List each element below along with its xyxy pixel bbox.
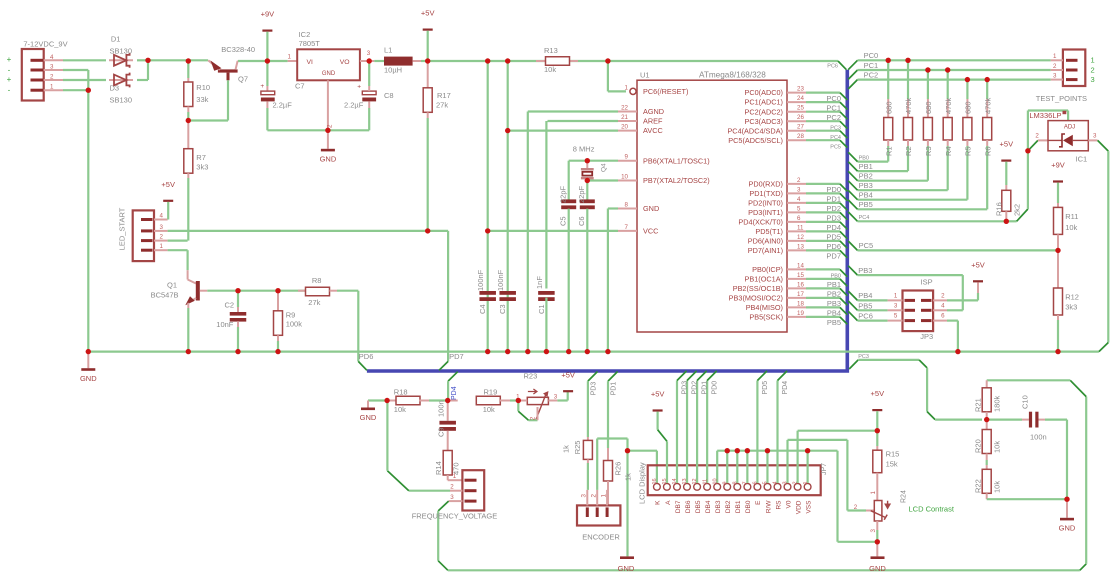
svg-text:PD0(RXD): PD0(RXD)	[749, 180, 783, 189]
svg-text:2k2: 2k2	[1013, 204, 1022, 216]
svg-text:11: 11	[702, 479, 708, 485]
svg-text:470k: 470k	[983, 97, 992, 114]
svg-text:PD3: PD3	[590, 382, 597, 396]
svg-text:PB3: PB3	[859, 181, 873, 190]
svg-text:PD4: PD4	[826, 223, 841, 232]
svg-text:100n: 100n	[1030, 433, 1047, 442]
svg-text:PB3(MOSI/OC2): PB3(MOSI/OC2)	[729, 294, 783, 303]
svg-text:VSS: VSS	[805, 500, 812, 514]
svg-text:IC2: IC2	[299, 30, 311, 39]
svg-text:680: 680	[924, 101, 933, 114]
svg-text:R26: R26	[614, 462, 623, 476]
svg-text:100nF: 100nF	[496, 269, 505, 291]
svg-text:VCC: VCC	[643, 227, 658, 236]
svg-text:PB4(MISO): PB4(MISO)	[746, 303, 783, 312]
svg-text:SB130: SB130	[110, 96, 133, 105]
svg-text:AREF: AREF	[643, 117, 663, 126]
svg-text:PC3: PC3	[858, 354, 869, 360]
svg-text:R14: R14	[434, 461, 443, 475]
svg-text:R8: R8	[312, 276, 322, 285]
svg-text:R12: R12	[1065, 293, 1079, 302]
svg-text:7: 7	[625, 224, 629, 231]
svg-text:BC547B: BC547B	[151, 291, 179, 300]
svg-text:PB2(SS/OC1B): PB2(SS/OC1B)	[733, 284, 783, 293]
svg-text:6: 6	[753, 481, 759, 484]
svg-text:680: 680	[964, 101, 973, 114]
svg-text:16: 16	[797, 281, 804, 288]
svg-text:470k: 470k	[904, 97, 913, 114]
svg-text:3: 3	[50, 64, 54, 71]
svg-text:Q1: Q1	[167, 280, 177, 289]
svg-text:R19: R19	[484, 388, 498, 397]
svg-text:27: 27	[797, 124, 804, 131]
svg-text:100k: 100k	[286, 320, 303, 329]
svg-text:10: 10	[712, 478, 718, 484]
svg-text:GND: GND	[320, 154, 337, 163]
svg-text:DB5: DB5	[695, 500, 702, 513]
svg-text:DB1: DB1	[735, 500, 742, 513]
svg-text:GND: GND	[1059, 523, 1076, 532]
svg-text:1: 1	[1091, 56, 1095, 65]
svg-text:R7: R7	[196, 153, 206, 162]
svg-text:PC5: PC5	[830, 144, 841, 150]
svg-text:PD1: PD1	[702, 381, 709, 395]
svg-text:R1: R1	[884, 146, 893, 156]
svg-text:PD0: PD0	[712, 381, 719, 395]
svg-text:24: 24	[797, 95, 804, 102]
svg-text:A: A	[665, 500, 672, 505]
svg-text:5: 5	[763, 481, 769, 484]
svg-text:8: 8	[625, 202, 629, 209]
svg-text:470k: 470k	[944, 97, 953, 114]
svg-text:PC3(ADC3): PC3(ADC3)	[744, 117, 783, 126]
svg-text:2: 2	[797, 177, 801, 184]
svg-text:15: 15	[662, 478, 668, 484]
svg-text:100nF: 100nF	[476, 269, 485, 291]
svg-text:-: -	[8, 66, 11, 75]
svg-text:C4: C4	[478, 304, 487, 314]
svg-text:GND: GND	[80, 374, 97, 383]
svg-text:R17: R17	[437, 91, 451, 100]
svg-text:R25: R25	[573, 441, 582, 455]
svg-text:PC2: PC2	[864, 70, 879, 79]
svg-text:R16: R16	[995, 202, 1004, 216]
svg-text:8: 8	[732, 481, 738, 484]
svg-text:7-12VDC_9V: 7-12VDC_9V	[23, 40, 67, 49]
svg-text:C6: C6	[577, 216, 586, 226]
svg-text:2: 2	[50, 74, 54, 81]
svg-text:1: 1	[50, 84, 54, 91]
svg-text:+9V: +9V	[1051, 161, 1065, 170]
svg-text:PC2: PC2	[826, 113, 841, 122]
svg-text:R5: R5	[964, 146, 973, 156]
svg-text:16: 16	[652, 478, 658, 484]
svg-text:PB2: PB2	[827, 290, 841, 299]
svg-text:PB5: PB5	[827, 318, 841, 327]
svg-text:VDD: VDD	[795, 500, 802, 514]
svg-text:PD5: PD5	[762, 381, 769, 395]
svg-text:+: +	[357, 84, 361, 91]
svg-text:PB3: PB3	[827, 299, 841, 308]
svg-text:V0: V0	[785, 500, 792, 508]
svg-text:1: 1	[600, 494, 607, 498]
svg-text:FREQUENCY_VOLTAGE: FREQUENCY_VOLTAGE	[412, 512, 498, 521]
svg-text:AGND: AGND	[643, 107, 664, 116]
svg-text:23: 23	[797, 86, 804, 93]
svg-text:PB1(OC1A): PB1(OC1A)	[744, 275, 783, 284]
svg-text:9: 9	[625, 154, 629, 161]
svg-text:1: 1	[894, 292, 898, 299]
svg-text:+5V: +5V	[871, 389, 885, 398]
svg-text:PC3: PC3	[830, 125, 841, 131]
svg-text:14: 14	[797, 262, 804, 269]
svg-text:C1: C1	[537, 304, 546, 314]
svg-text:17: 17	[797, 291, 804, 298]
svg-text:15: 15	[797, 272, 804, 279]
svg-text:PB5: PB5	[858, 301, 872, 310]
svg-text:PC0: PC0	[826, 94, 841, 103]
svg-text:R18: R18	[394, 388, 408, 397]
svg-text:+5V: +5V	[1000, 140, 1014, 149]
svg-text:PB4: PB4	[859, 191, 873, 200]
svg-text:27k: 27k	[308, 298, 320, 307]
svg-text:R/W: R/W	[765, 500, 772, 514]
svg-text:ENCODER: ENCODER	[582, 533, 620, 542]
svg-text:26: 26	[797, 114, 804, 121]
svg-text:DB6: DB6	[685, 500, 692, 513]
svg-text:PC1: PC1	[864, 61, 879, 70]
svg-text:TEST_POINTS: TEST_POINTS	[1036, 94, 1087, 103]
svg-text:AVCC: AVCC	[643, 126, 663, 135]
svg-text:1k: 1k	[562, 445, 571, 453]
svg-text:PD4(XCK/T0): PD4(XCK/T0)	[738, 218, 783, 227]
svg-text:PB7(XTAL2/TOSC2): PB7(XTAL2/TOSC2)	[643, 176, 710, 185]
svg-text:PB0: PB0	[859, 155, 869, 161]
svg-text:1k: 1k	[624, 473, 633, 481]
svg-text:1: 1	[160, 243, 164, 250]
svg-text:22pF: 22pF	[577, 185, 586, 203]
svg-text:2: 2	[793, 481, 799, 484]
svg-text:LED_START: LED_START	[118, 207, 127, 250]
svg-text:5: 5	[797, 205, 801, 212]
svg-text:25: 25	[797, 105, 804, 112]
svg-text:PD1: PD1	[826, 195, 841, 204]
svg-text:1nF: 1nF	[535, 276, 544, 289]
svg-text:2.2µF: 2.2µF	[344, 100, 364, 109]
svg-text:LCD Display: LCD Display	[638, 462, 647, 504]
svg-text:100n: 100n	[436, 400, 445, 417]
svg-text:LM336LP: LM336LP	[1029, 111, 1061, 120]
svg-text:R21: R21	[974, 398, 983, 412]
svg-text:3k3: 3k3	[196, 162, 208, 171]
svg-text:PC5: PC5	[859, 241, 874, 250]
svg-text:PC0: PC0	[864, 51, 879, 60]
svg-text:PB0(ICP): PB0(ICP)	[752, 265, 783, 274]
svg-text:PB2: PB2	[859, 172, 873, 181]
svg-text:+5V: +5V	[161, 180, 175, 189]
svg-text:PD6: PD6	[359, 352, 374, 361]
svg-text:+5V: +5V	[971, 260, 985, 269]
svg-text:PC5(ADC5/SCL): PC5(ADC5/SCL)	[728, 136, 783, 145]
svg-text:PD2(INT0): PD2(INT0)	[748, 199, 783, 208]
svg-text:2: 2	[941, 292, 945, 299]
svg-text:PD7: PD7	[826, 252, 841, 261]
svg-text:4: 4	[50, 54, 54, 61]
svg-text:28: 28	[797, 133, 804, 140]
svg-text:Q7: Q7	[238, 75, 248, 84]
svg-text:1: 1	[803, 481, 809, 484]
svg-text:K: K	[655, 500, 662, 505]
svg-text:4: 4	[773, 481, 779, 484]
svg-text:3: 3	[1053, 72, 1057, 79]
svg-text:R24: R24	[901, 490, 908, 503]
svg-text:PD3: PD3	[682, 381, 689, 395]
svg-text:DB2: DB2	[725, 500, 732, 513]
svg-text:R6: R6	[983, 146, 992, 156]
svg-text:4: 4	[941, 302, 945, 309]
svg-text:DB3: DB3	[715, 500, 722, 513]
svg-text:R11: R11	[1065, 212, 1078, 221]
svg-text:PD5(T1): PD5(T1)	[755, 227, 783, 236]
svg-text:PD5: PD5	[826, 233, 841, 242]
svg-text:PD1: PD1	[611, 382, 618, 396]
svg-text:PB1: PB1	[859, 162, 873, 171]
svg-text:+: +	[7, 75, 12, 84]
svg-text:GND: GND	[618, 564, 635, 573]
svg-text:22: 22	[621, 105, 628, 112]
svg-text:PC6: PC6	[858, 312, 873, 321]
svg-text:20: 20	[621, 124, 628, 131]
svg-text:PD7(AIN1): PD7(AIN1)	[748, 246, 783, 255]
svg-text:DB7: DB7	[675, 500, 682, 513]
svg-text:PD7: PD7	[449, 352, 464, 361]
svg-text:PD3(INT1): PD3(INT1)	[748, 208, 783, 217]
svg-text:R20: R20	[974, 439, 983, 453]
svg-text:10k: 10k	[1065, 223, 1077, 232]
svg-text:VI: VI	[307, 59, 314, 66]
svg-text:Q4: Q4	[601, 163, 608, 172]
svg-text:21: 21	[621, 114, 628, 121]
svg-text:10k: 10k	[544, 65, 556, 74]
svg-text:14: 14	[672, 478, 678, 484]
svg-text:R4: R4	[944, 146, 953, 156]
svg-text:22pF: 22pF	[558, 185, 567, 203]
svg-text:27k: 27k	[436, 101, 448, 110]
svg-text:PD4: PD4	[451, 386, 458, 400]
svg-text:JP3: JP3	[920, 332, 933, 341]
svg-text:1: 1	[453, 473, 457, 480]
svg-text:3: 3	[160, 224, 164, 231]
svg-text:15k: 15k	[886, 460, 898, 469]
svg-text:RS: RS	[775, 500, 782, 510]
svg-text:D3: D3	[110, 84, 120, 93]
svg-text:3: 3	[1091, 75, 1095, 84]
svg-text:PC4(ADC4/SDA): PC4(ADC4/SDA)	[727, 126, 783, 135]
svg-text:PC0(ADC0): PC0(ADC0)	[744, 88, 783, 97]
svg-text:C9: C9	[436, 427, 445, 437]
svg-text:11: 11	[797, 224, 804, 231]
svg-text:3: 3	[1093, 133, 1097, 140]
svg-text:2: 2	[327, 124, 334, 128]
svg-text:7: 7	[742, 481, 748, 484]
svg-text:10k: 10k	[483, 405, 495, 414]
svg-text:PD4: PD4	[782, 381, 789, 395]
svg-text:PC1(ADC1): PC1(ADC1)	[744, 98, 783, 107]
svg-text:LCD Contrast: LCD Contrast	[909, 505, 955, 514]
svg-text:PB5: PB5	[859, 200, 873, 209]
svg-text:4: 4	[160, 213, 164, 220]
svg-text:+5V: +5V	[651, 390, 665, 399]
svg-text:PB5(SCK): PB5(SCK)	[749, 313, 783, 322]
svg-text:1: 1	[288, 54, 292, 61]
svg-text:U1: U1	[640, 71, 650, 80]
svg-text:IC1: IC1	[1076, 155, 1088, 164]
svg-text:PB6(XTAL1/TOSC1): PB6(XTAL1/TOSC1)	[643, 156, 710, 165]
svg-text:+: +	[260, 83, 264, 90]
svg-text:+5V: +5V	[561, 370, 575, 379]
svg-text:3: 3	[894, 302, 898, 309]
svg-text:PB3: PB3	[858, 266, 872, 275]
svg-text:1: 1	[1053, 53, 1057, 60]
svg-text:R2: R2	[904, 146, 913, 156]
svg-text:C3: C3	[498, 304, 507, 314]
svg-text:PD2: PD2	[826, 204, 841, 213]
svg-text:2: 2	[854, 504, 858, 511]
svg-text:PD1(TXD): PD1(TXD)	[749, 189, 783, 198]
svg-text:R23: R23	[524, 371, 538, 380]
svg-text:BC328-40: BC328-40	[221, 45, 255, 54]
svg-text:180k: 180k	[993, 395, 1002, 412]
svg-text:GND: GND	[322, 71, 336, 77]
svg-text:10: 10	[621, 174, 628, 181]
svg-text:2: 2	[530, 416, 537, 420]
svg-text:+9V: +9V	[261, 10, 275, 19]
svg-text:PC6: PC6	[827, 64, 838, 70]
svg-text:3: 3	[450, 494, 454, 501]
svg-text:R22: R22	[974, 479, 983, 493]
svg-text:10nF: 10nF	[216, 320, 234, 329]
svg-text:7805T: 7805T	[299, 39, 321, 48]
svg-text:13: 13	[797, 243, 804, 250]
svg-text:PB1: PB1	[827, 280, 841, 289]
svg-text:PD3: PD3	[826, 214, 841, 223]
svg-text:10µH: 10µH	[384, 65, 402, 74]
svg-text:18: 18	[797, 300, 804, 307]
svg-text:C10: C10	[1020, 395, 1029, 409]
svg-text:1: 1	[870, 491, 877, 495]
svg-text:PC2(ADC2): PC2(ADC2)	[744, 107, 783, 116]
svg-text:3: 3	[367, 50, 371, 57]
svg-text:JP7: JP7	[821, 463, 828, 475]
svg-text:PD0: PD0	[826, 185, 841, 194]
svg-text:2.2µF: 2.2µF	[273, 100, 293, 109]
svg-text:12: 12	[692, 478, 698, 484]
svg-text:2: 2	[160, 234, 164, 241]
svg-text:PC1: PC1	[826, 103, 841, 112]
svg-text:ISP: ISP	[921, 278, 933, 287]
svg-text:3: 3	[554, 394, 558, 401]
svg-text:6: 6	[941, 313, 945, 320]
svg-text:GND: GND	[869, 564, 886, 573]
svg-text:19: 19	[797, 310, 804, 317]
svg-text:PD2: PD2	[692, 381, 699, 395]
svg-text:DB4: DB4	[705, 500, 712, 513]
svg-text:+5V: +5V	[421, 9, 435, 18]
svg-text:R13: R13	[544, 46, 558, 55]
svg-text:+: +	[7, 55, 12, 64]
svg-text:PB0: PB0	[831, 274, 841, 280]
svg-text:3: 3	[581, 494, 588, 498]
svg-text:SB130: SB130	[110, 46, 133, 55]
svg-text:GND: GND	[643, 204, 659, 213]
svg-text:8 MHz: 8 MHz	[573, 145, 595, 154]
svg-text:9: 9	[722, 481, 728, 484]
svg-text:D1: D1	[111, 34, 121, 43]
svg-text:3k3: 3k3	[1065, 303, 1077, 312]
svg-text:2: 2	[1053, 63, 1057, 70]
svg-text:PC4: PC4	[830, 135, 841, 141]
svg-text:PB4: PB4	[827, 309, 841, 318]
svg-text:6: 6	[797, 215, 801, 222]
svg-text:33k: 33k	[196, 95, 208, 104]
svg-text:L1: L1	[384, 46, 392, 55]
svg-text:10k: 10k	[394, 405, 406, 414]
svg-text:-: -	[8, 86, 11, 95]
svg-text:R10: R10	[196, 83, 210, 92]
svg-text:12: 12	[797, 234, 804, 241]
svg-text:ATmega8/168/328: ATmega8/168/328	[699, 71, 766, 80]
svg-text:R15: R15	[886, 450, 900, 459]
svg-text:PB4: PB4	[858, 291, 872, 300]
svg-text:GND: GND	[360, 413, 377, 422]
svg-text:3: 3	[797, 186, 801, 193]
svg-text:2: 2	[450, 483, 454, 490]
svg-text:PC4: PC4	[859, 215, 870, 221]
svg-text:3: 3	[870, 529, 877, 533]
svg-text:VO: VO	[340, 59, 350, 66]
svg-text:DB0: DB0	[745, 500, 752, 513]
svg-text:10k: 10k	[993, 481, 1002, 493]
svg-text:680: 680	[884, 101, 893, 114]
svg-text:5: 5	[894, 313, 898, 320]
svg-text:C2: C2	[225, 301, 235, 310]
svg-text:2: 2	[1035, 133, 1039, 140]
svg-text:C7: C7	[295, 81, 305, 90]
svg-text:R9: R9	[286, 310, 296, 319]
svg-text:C5: C5	[558, 216, 567, 226]
svg-text:3: 3	[783, 481, 789, 484]
svg-text:4: 4	[797, 196, 801, 203]
svg-text:E: E	[755, 500, 762, 505]
svg-text:2: 2	[590, 494, 597, 498]
svg-text:13: 13	[682, 478, 688, 484]
svg-text:C8: C8	[384, 91, 394, 100]
svg-text:ADJ: ADJ	[1064, 125, 1075, 131]
svg-text:PC6(/RESET): PC6(/RESET)	[643, 87, 688, 96]
svg-text:PD6(AIN0): PD6(AIN0)	[748, 237, 783, 246]
svg-text:PD6: PD6	[826, 242, 841, 251]
svg-text:R3: R3	[924, 146, 933, 156]
svg-text:1: 1	[625, 84, 629, 91]
svg-text:10k: 10k	[993, 441, 1002, 453]
svg-text:2: 2	[1091, 65, 1095, 74]
